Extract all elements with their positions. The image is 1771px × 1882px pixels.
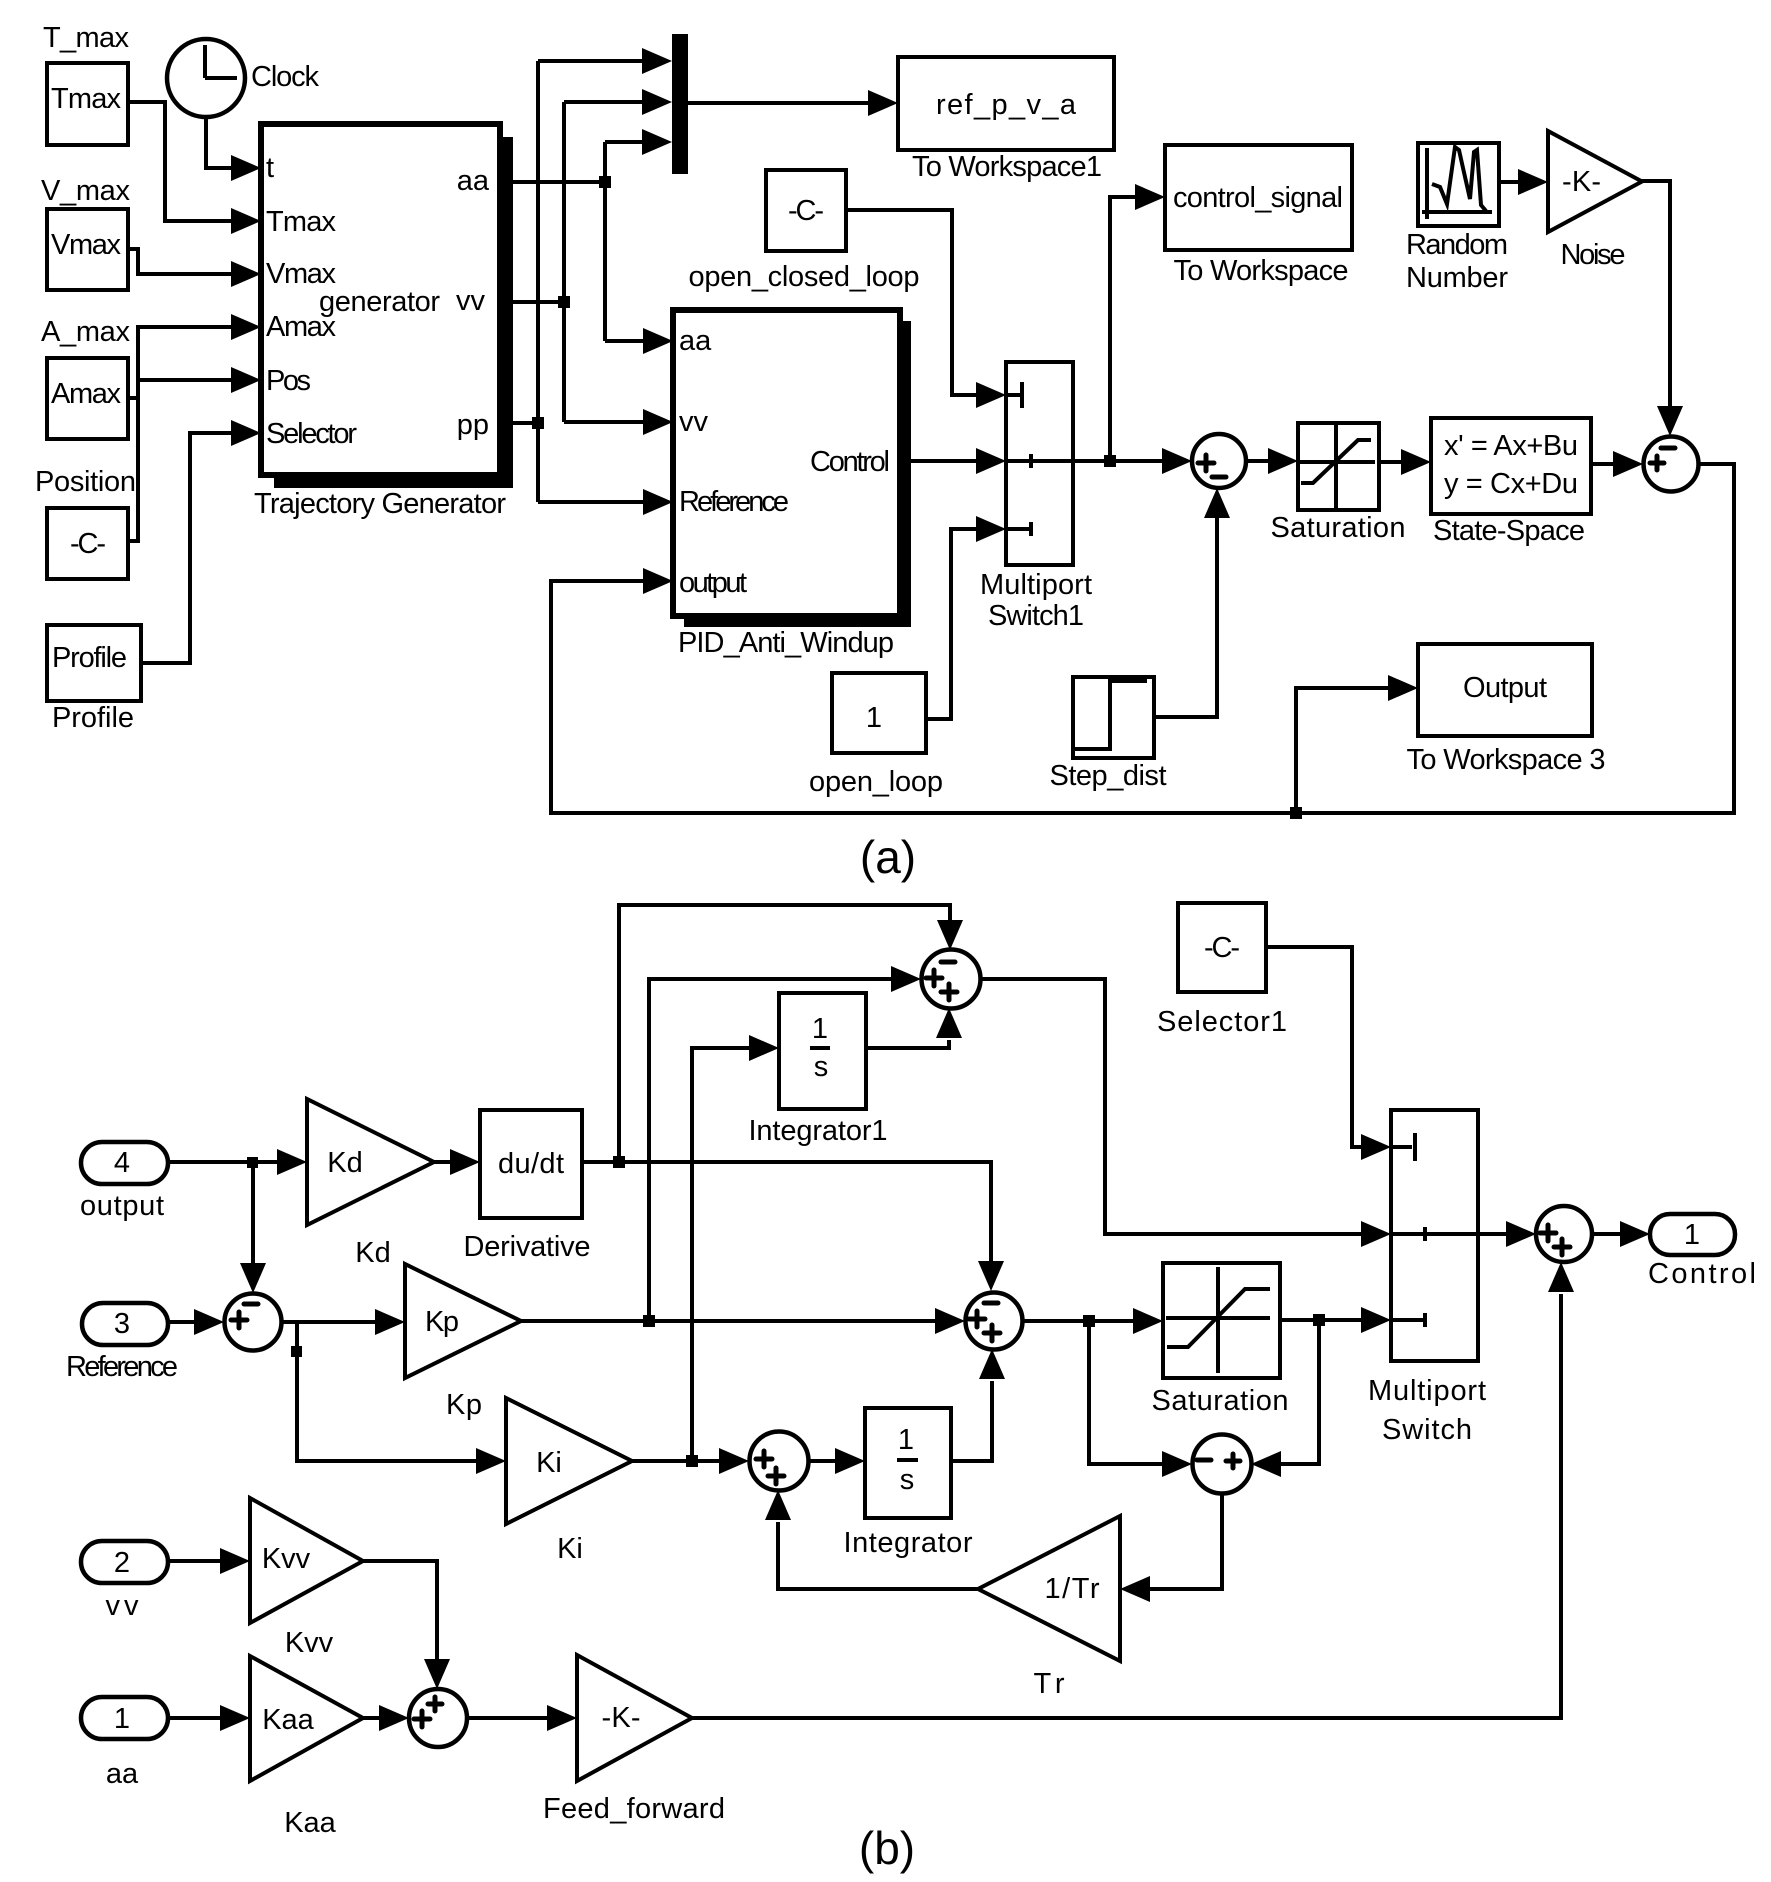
svg-text:A_max: A_max [41, 316, 131, 348]
svg-text:Kp: Kp [425, 1306, 459, 1338]
svg-text:Position: Position [35, 466, 136, 498]
svg-text:s: s [900, 1464, 915, 1496]
wire sum6 to Feed_forward [467, 1705, 577, 1731]
step block Step_dist [1050, 677, 1167, 792]
svg-text:Kaa: Kaa [284, 1807, 336, 1839]
svg-text:Switch: Switch [1382, 1414, 1472, 1446]
svg-text:Noise: Noise [1561, 239, 1626, 271]
wire sum3 to Integrator [808, 1448, 865, 1474]
svg-text:y = Cx+Du: y = Cx+Du [1444, 468, 1578, 500]
derivative block du/dt [464, 1110, 591, 1263]
wire sum to Saturation [1246, 448, 1298, 474]
svg-text:du/dt: du/dt [498, 1148, 564, 1180]
mux block [672, 34, 688, 174]
sum3 circle [750, 1432, 809, 1491]
wire aa to Kaa [168, 1705, 250, 1731]
svg-text:To Workspace 3: To Workspace 3 [1407, 744, 1606, 776]
wire open_closed_loop to switch1 [846, 210, 1006, 408]
svg-text:Vmax: Vmax [51, 229, 122, 261]
svg-text:Kd: Kd [327, 1147, 362, 1179]
svg-text:Saturation: Saturation [1152, 1385, 1289, 1417]
sum6 circle [409, 1689, 467, 1747]
svg-text:output: output [80, 1190, 164, 1222]
gain Kvv [250, 1498, 363, 1659]
wire Saturation tap down to sum5 [1251, 1320, 1319, 1477]
svg-text:Control: Control [1648, 1258, 1756, 1290]
inport 2 vv [81, 1541, 168, 1622]
error sum circle [225, 1294, 282, 1351]
wire switch1 to sum [1073, 448, 1192, 474]
wire Ki tap up to Integrator1 [692, 1035, 779, 1461]
wire sum2 to Saturation [1022, 1308, 1163, 1334]
svg-text:aa: aa [457, 165, 490, 197]
svg-text:Integrator: Integrator [844, 1527, 973, 1559]
constant block Tmax [43, 22, 130, 145]
svg-text:x' = Ax+Bu: x' = Ax+Bu [1444, 430, 1578, 462]
sum1 circle anti-windup [922, 950, 981, 1009]
svg-text:1: 1 [1684, 1219, 1700, 1251]
svg-text:Reference: Reference [679, 486, 789, 518]
random number block [1406, 143, 1508, 294]
saturation block (a) [1271, 423, 1406, 544]
outport 1 Control [1648, 1214, 1756, 1290]
svg-text:Pos: Pos [266, 365, 311, 397]
wire aa output [500, 129, 673, 354]
subsystem Trajectory Generator [254, 124, 513, 520]
svg-text:aa: aa [679, 325, 712, 357]
svg-text:Amax: Amax [51, 378, 122, 410]
wire vv to Kvv [168, 1548, 250, 1574]
wire error sum to Kp [281, 1309, 405, 1335]
wire tap to control_signal [1110, 184, 1165, 461]
To Workspace1 block ref_p_v_a [898, 57, 1114, 183]
svg-text:1: 1 [812, 1013, 828, 1045]
svg-text:-C-: -C- [70, 528, 106, 560]
svg-text:1: 1 [114, 1703, 130, 1735]
svg-text:Kd: Kd [355, 1237, 390, 1269]
wire Saturation to switch data2 [1280, 1307, 1391, 1333]
svg-text:-K-: -K- [602, 1702, 641, 1734]
wire Position to Pos [128, 367, 261, 541]
svg-text:Kvv: Kvv [285, 1627, 334, 1659]
feedback wire from sum around bottom [551, 464, 1734, 819]
svg-text:Ki: Ki [536, 1447, 562, 1479]
sum4 circle [1536, 1206, 1592, 1262]
saturation block (b) [1152, 1263, 1289, 1417]
svg-text:pp: pp [457, 409, 489, 441]
wire Amax to TG [128, 314, 261, 398]
wire Integrator1 to sum1 [866, 1008, 962, 1048]
gain Kaa [250, 1656, 363, 1839]
svg-text:Profile: Profile [52, 702, 134, 734]
wire Derivative tap up over to sum1 [619, 905, 963, 1162]
constant block Profile [47, 625, 141, 734]
wire sum2 tap down to sum5 [1089, 1321, 1192, 1477]
svg-text:Profile: Profile [52, 642, 127, 674]
wire Kp to sum2 [521, 1308, 965, 1334]
svg-text:Kvv: Kvv [262, 1543, 311, 1575]
wire Noise to sum [1642, 181, 1683, 436]
wire sum5 down to 1/Tr [1120, 1493, 1222, 1602]
svg-text:Integrator1: Integrator1 [749, 1115, 888, 1147]
clock block [167, 39, 320, 117]
svg-text:Trajectory Generator: Trajectory Generator [254, 488, 506, 520]
wire State-Space to sum [1591, 451, 1643, 477]
wire Feed_forward up to sum4 [692, 1262, 1574, 1718]
constant block Amax [41, 316, 131, 439]
wire Tmax to TG [128, 102, 261, 234]
svg-text:s: s [814, 1051, 829, 1083]
svg-text:Reference: Reference [66, 1351, 178, 1383]
svg-text:Ki: Ki [557, 1533, 583, 1565]
To Workspace 3 block Output [1407, 644, 1606, 776]
gain Kd [307, 1099, 434, 1269]
gain Kp [405, 1264, 521, 1421]
inport 1 aa [81, 1697, 168, 1790]
svg-text:V_max: V_max [41, 175, 131, 207]
sum5 circle [1193, 1435, 1252, 1494]
To Workspace block control_signal [1165, 145, 1352, 287]
wire open_loop to switch1 [926, 516, 1006, 719]
wire tap to Output block [1296, 675, 1418, 813]
svg-text:-K-: -K- [1562, 166, 1601, 198]
svg-text:Random: Random [1406, 229, 1508, 261]
svg-text:ref_p_v_a: ref_p_v_a [936, 89, 1077, 121]
constant Selector1 [1157, 903, 1287, 1038]
sum2 circle [966, 1293, 1023, 1350]
svg-text:T_max: T_max [43, 22, 130, 54]
gain Noise [1548, 131, 1642, 271]
svg-text:Multiport: Multiport [1368, 1375, 1486, 1407]
wire Kaa to sum6 [363, 1705, 409, 1731]
wire Integrator to sum2 [951, 1349, 1005, 1461]
svg-text:Switch1: Switch1 [988, 600, 1084, 632]
svg-text:To Workspace1: To Workspace1 [912, 151, 1102, 183]
wire Kvv down to sum6 [363, 1561, 450, 1689]
svg-text:1: 1 [898, 1424, 914, 1456]
integrator block [844, 1408, 973, 1559]
wire Clock to t [206, 117, 261, 181]
multiport switch block (b) [1368, 1110, 1486, 1446]
svg-text:Tr: Tr [1034, 1668, 1065, 1700]
svg-text:vv: vv [456, 285, 486, 317]
svg-text:(a): (a) [860, 831, 916, 883]
wire Random Number to Noise [1499, 169, 1548, 195]
inport 4 output [80, 1142, 168, 1222]
svg-text:Clock: Clock [251, 61, 320, 93]
wire 1/Tr to sum3 [765, 1490, 978, 1589]
inport 3 Reference [66, 1303, 178, 1383]
svg-text:t: t [266, 152, 274, 184]
state-space block [1431, 418, 1591, 547]
wire Step_dist to sum [1154, 488, 1230, 717]
svg-text:output: output [679, 567, 747, 599]
wire sum4 to outport [1592, 1221, 1650, 1247]
svg-text:Multiport: Multiport [980, 569, 1092, 601]
wire output to Kd [168, 1149, 307, 1175]
wire Ki to sum3 [632, 1448, 749, 1474]
svg-text:open_closed_loop: open_closed_loop [689, 261, 920, 293]
multiport switch1 block [980, 362, 1092, 632]
svg-text:Saturation: Saturation [1271, 512, 1406, 544]
wire sum1 out to switch data1 [980, 979, 1391, 1247]
svg-text:Output: Output [1463, 672, 1547, 704]
svg-text:vv: vv [679, 406, 709, 438]
integrator1 block [749, 993, 888, 1147]
wire Derivative output with branches [582, 1156, 1004, 1291]
subsystem PID_Anti_Windup [673, 310, 911, 659]
gain 1/Tr [978, 1516, 1120, 1700]
svg-text:1/Tr: 1/Tr [1045, 1573, 1100, 1605]
wire Kd to Derivative [434, 1149, 480, 1175]
wire switch to sum4 [1478, 1221, 1536, 1247]
wire Control to switch1 [900, 448, 1006, 474]
sum circle output disturbance [1644, 437, 1699, 492]
constant block Vmax [41, 175, 131, 290]
svg-text:vv: vv [106, 1590, 140, 1622]
constant block open_loop [809, 673, 943, 798]
svg-text:generator: generator [319, 286, 440, 318]
svg-text:Kp: Kp [446, 1389, 482, 1421]
sum circle after switch1 [1192, 434, 1246, 488]
svg-text:Tmax: Tmax [266, 206, 337, 238]
svg-text:Selector: Selector [266, 418, 357, 450]
wire error tap down to Ki [291, 1322, 506, 1474]
wire Reference to error sum [168, 1309, 224, 1335]
svg-text:PID_Anti_Windup: PID_Anti_Windup [678, 627, 894, 659]
wire pp output [500, 48, 673, 515]
svg-text:Derivative: Derivative [464, 1231, 591, 1263]
svg-text:2: 2 [114, 1547, 130, 1579]
svg-text:-C-: -C- [1204, 932, 1240, 964]
svg-text:To Workspace: To Workspace [1174, 255, 1349, 287]
svg-text:Step_dist: Step_dist [1050, 760, 1167, 792]
wire output tap down to error sum [240, 1162, 266, 1293]
wire Saturation to State-Space [1379, 449, 1431, 475]
wire vv output [500, 89, 673, 435]
svg-text:control_signal: control_signal [1173, 182, 1343, 214]
gain Ki [506, 1398, 632, 1565]
wire Vmax to TG [128, 249, 261, 287]
wire Selector1 to switch control [1266, 947, 1391, 1160]
svg-text:Selector1: Selector1 [1157, 1006, 1287, 1038]
svg-text:Number: Number [1406, 262, 1508, 294]
svg-text:3: 3 [114, 1308, 130, 1340]
svg-text:-C-: -C- [788, 195, 824, 227]
svg-text:Feed_forward: Feed_forward [543, 1793, 725, 1825]
svg-text:Tmax: Tmax [51, 83, 122, 115]
svg-text:aa: aa [106, 1758, 139, 1790]
svg-text:State-Space: State-Space [1433, 515, 1585, 547]
svg-text:4: 4 [114, 1147, 130, 1179]
svg-text:open_loop: open_loop [809, 766, 943, 798]
svg-text:(b): (b) [859, 1822, 915, 1874]
wire mux to ref_p_v_a [688, 90, 898, 116]
constant block open_closed_loop [689, 170, 920, 293]
gain Feed_forward [543, 1655, 725, 1825]
wire Kp tap up to sum1 [649, 966, 921, 1321]
svg-text:Kaa: Kaa [262, 1704, 314, 1736]
constant block Position [35, 466, 136, 579]
wire Profile to Selector [141, 420, 261, 663]
svg-text:1: 1 [866, 702, 882, 734]
svg-text:Control: Control [810, 446, 890, 478]
